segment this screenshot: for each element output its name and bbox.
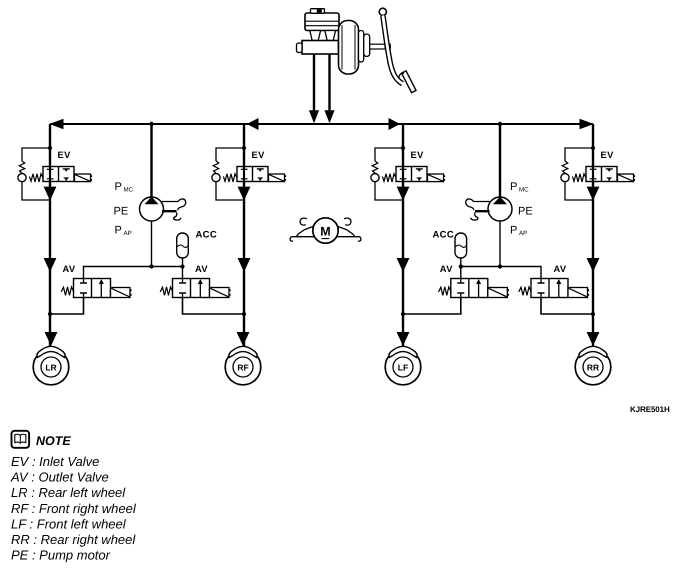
wire: AV1 outlet down and over to main line [50,298,84,315]
wire: pump outlet down to suction line (right) [499,221,501,267]
return spring of EV1 [29,174,43,182]
flow arrow on LF line (mid) [397,258,410,272]
solenoid actuator of EV3 [428,174,446,182]
svg-text:M: M [320,225,330,239]
note book icon [12,431,30,448]
svg-text:AV: AV [440,264,453,274]
flow arrow on LR line (mid) [44,258,57,272]
pump PE circle (left) [140,197,164,221]
inlet valve EV1 body (2-position) [43,167,74,182]
return spring of EV3 [382,174,396,182]
brake pedal pad [399,71,416,93]
svg-text:P: P [115,225,122,237]
svg-text:P: P [510,181,517,193]
wire: main line to wheel LR [49,124,51,349]
wire: master cylinder primary outlet [313,54,315,112]
wire: feed from bus down to pump PE (left) [150,124,152,198]
wire: master cylinder secondary outlet [328,54,330,112]
motor M circle [313,218,338,243]
check valve CV4 (spring + ball) on EV4 bypass [561,161,569,182]
junction node on line at bypass top of EV4 [591,146,595,150]
check valve CV3 (spring + ball) on EV3 bypass [371,161,379,182]
arrow into bus from primary outlet [309,110,319,123]
wire: bypass loop around EV1 [22,148,50,200]
flow arrow above wheel RF [237,332,250,346]
label P AP (left pump outlet pressure) [115,225,132,238]
junction node on bus at pump line (right) [498,122,502,126]
pedal push rod [370,44,391,49]
flow arrow below EV3 [397,187,410,201]
flow arrow below EV2 [238,187,251,201]
wire: bypass loop around EV3 [375,148,403,200]
svg-text:NOTE: NOTE [36,434,71,448]
return spring of EV4 [572,174,586,182]
inlet valve EV4 body (2-position) [586,167,617,182]
flow arrow above wheel LF [397,332,410,346]
bus arrow (right end, pointing right) [580,119,594,130]
reservoir filler cap [311,9,325,14]
pump drive claw (left) [162,199,186,220]
accumulator ACC capsule (left) [177,233,189,258]
junction node on main line at AV3 return [401,312,405,316]
wire: left ACC to suction line and AV2 [182,258,184,279]
wheel cylinder LR [33,346,69,385]
label P MC (right pump) [510,181,529,194]
flow arrow below EV4 [587,187,600,201]
solenoid actuator of EV2 [269,174,287,182]
svg-text:AP: AP [519,230,527,237]
svg-text:RR : Rear right wheel: RR : Rear right wheel [11,532,136,547]
flow arrow on RR line (mid) [587,258,600,272]
return spring of EV2 [223,174,237,182]
master cylinder reservoir [305,13,339,31]
wire: left suction line [84,267,183,279]
junction node on main line at AV2 return [242,312,246,316]
label P MC (left pump inlet pressure) [115,181,134,194]
motor right mount claw [337,218,361,241]
junction node right suction at pump [498,264,502,268]
accumulator ACC capsule (right) [455,233,467,258]
svg-text:P: P [510,225,517,237]
pump drive claw (right) [466,199,490,220]
svg-text:ACC: ACC [433,230,454,241]
flow arrow above wheel RR [587,332,600,346]
wire: pump outlet down to suction line (left) [151,221,153,267]
check valve CV2 (spring + ball) on EV2 bypass [212,161,220,182]
solenoid actuator of AV3 [488,288,509,298]
inlet valve EV3 body (2-position) [396,167,427,182]
pump PE circle (right) [488,197,512,221]
vacuum booster disc [339,21,359,75]
svg-text:RF : Front right wheel: RF : Front right wheel [11,501,137,516]
solenoid actuator of AV2 [210,288,231,298]
solenoid actuator of EV1 [75,174,93,182]
svg-text:EV: EV [411,150,425,160]
motor left mount claw [290,218,314,241]
svg-text:LR : Rear left wheel: LR : Rear left wheel [11,485,126,500]
wire: main pressure bus [50,123,593,125]
wire: main line to wheel RF [243,124,245,349]
svg-text:LF : Front left wheel: LF : Front left wheel [11,516,127,531]
junction node on line at bypass top of EV3 [401,146,405,150]
wire: right ACC to suction line and AV3 [460,258,462,279]
return spring of AV3 [439,287,451,296]
label P AP (right pump) [510,225,527,238]
svg-text:AV: AV [554,264,567,274]
junction node on line at bypass top of EV2 [242,146,246,150]
flow arrow below EV1 [44,187,57,201]
brake pedal pivot [379,8,386,15]
reservoir outlet funnels [310,31,336,41]
pump outlet triangle (right) [493,197,507,205]
return spring of AV1 [61,287,73,296]
wire: bypass loop around EV2 [216,148,244,200]
bus arrow (mid-left, pointing left) [247,118,259,130]
svg-text:LR: LR [45,362,56,372]
junction node right suction at ACC [459,264,463,268]
wire: main line to wheel LF [402,124,404,349]
wire: right suction line [461,267,541,279]
wire: main line to wheel RR [592,124,594,349]
svg-text:PE: PE [518,206,533,218]
outlet valve AV1 body (2-position) [74,279,111,298]
svg-text:RR: RR [587,362,599,372]
junction node left suction at pump [149,264,153,268]
junction node on bus at pump line (left) [149,122,153,126]
svg-text:EV: EV [252,150,266,160]
svg-text:MC: MC [124,187,134,194]
wheel cylinder RF [225,346,261,385]
svg-text:KJRE501H: KJRE501H [630,405,670,414]
svg-text:AV : Outlet Valve: AV : Outlet Valve [10,470,109,485]
solenoid actuator of AV1 [111,288,132,298]
junction node on line at bypass top of EV1 [48,146,52,150]
wheel cylinder LF [385,346,421,385]
svg-text:AV: AV [195,264,208,274]
master cylinder body [297,41,339,55]
svg-text:MC: MC [519,187,529,194]
solenoid actuator of AV4 [568,288,589,298]
return spring of AV2 [160,287,172,296]
outlet valve AV4 body (2-position) [531,279,568,298]
wheel cylinder RR [575,346,611,385]
arrow into bus from secondary outlet [324,110,334,123]
bus arrow (left end, pointing left) [49,119,63,130]
svg-text:PE: PE [114,206,129,218]
junction node left suction at ACC [180,264,184,268]
junction node on main line at AV1 return [48,312,52,316]
wire: feed from bus down to pump PE (right) [499,124,501,198]
inlet valve EV2 body (2-position) [237,167,268,182]
svg-text:PE : Pump motor: PE : Pump motor [11,548,111,563]
return spring of AV4 [519,287,531,296]
wire: bypass loop around EV4 [565,148,593,200]
booster rings [359,31,370,63]
flow arrow on RF line (mid) [238,258,251,272]
brake pedal arm [383,16,403,84]
svg-text:EV : Inlet Valve: EV : Inlet Valve [11,454,99,469]
bus arrow (mid-right, pointing right) [389,118,401,130]
check valve CV1 (spring + ball) on EV1 bypass [18,161,26,182]
svg-text:EV: EV [601,150,615,160]
svg-text:AV: AV [62,264,75,274]
svg-text:ACC: ACC [196,230,217,241]
outlet valve AV3 body (2-position) [451,279,488,298]
wire: AV3 outlet down and over to main line [403,298,461,315]
svg-text:P: P [115,181,122,193]
wire: AV4 outlet down and over to main line [541,298,593,315]
solenoid actuator of EV4 [618,174,636,182]
flow arrow above wheel LR [45,332,58,346]
pump outlet triangle (left) [145,197,159,205]
wire: AV2 outlet down and over to main line [183,298,245,315]
svg-text:EV: EV [58,150,72,160]
junction node on main line at AV4 return [591,312,595,316]
svg-text:RF: RF [237,362,248,372]
svg-text:LF: LF [398,362,408,372]
svg-text:AP: AP [124,230,132,237]
outlet valve AV2 body (2-position) [173,279,210,298]
